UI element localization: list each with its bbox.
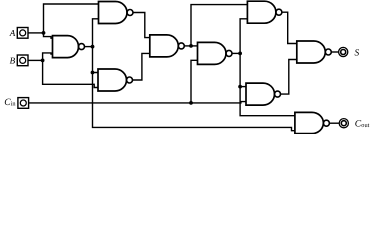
nand U1 inputs A,B: [53, 36, 79, 58]
nand U4 output s1: [150, 35, 179, 57]
wire B down to U3 lower input: [43, 60, 98, 87]
nand U6 inputs s1,n4: [247, 1, 276, 23]
svg-text:A: A: [9, 28, 16, 38]
wire n4 up to U6 lower input: [240, 19, 247, 54]
wire Cin right to U7 lower input: [191, 102, 246, 103]
wire s1 up to U6 upper input: [191, 5, 247, 46]
output terminal S: [339, 47, 348, 56]
node B junction: [41, 59, 45, 63]
wire B from box to junction: [28, 59, 42, 61]
node s1 junction: [189, 44, 193, 48]
wire B up into U1 lower input: [43, 53, 53, 61]
output terminal Cout: [339, 119, 348, 128]
node A junction: [42, 31, 46, 35]
nand U2 inputs A,n1: [99, 2, 128, 24]
node n4 tap at U7: [238, 85, 242, 89]
svg-text:B: B: [10, 56, 16, 66]
svg-text:in: in: [11, 101, 17, 108]
node n4 junction: [238, 52, 242, 56]
wire U6 output to U8 upper input: [282, 12, 297, 43]
nand U8 output S: [297, 41, 326, 63]
wire n1 down to bottom rail toward U9: [93, 73, 295, 131]
nand U7 inputs n4,Cin: [246, 83, 275, 105]
wire Cin from box to junction: [29, 102, 191, 104]
wire n1 down to U3 upper input: [93, 47, 99, 73]
wire U3 output to U4 lower input: [133, 53, 150, 80]
wire A from box to junction: [28, 32, 43, 34]
input terminal A: [17, 28, 28, 39]
wire A down into U1 upper input: [44, 33, 53, 38]
wire U4 output to node s1: [184, 45, 191, 47]
wire n4 tap to U7 upper input: [240, 86, 246, 88]
nand U9 output Cout: [295, 112, 324, 133]
svg-text:out: out: [361, 122, 369, 129]
svg-text:S: S: [355, 49, 360, 59]
wire U7 output to U8 lower input: [281, 60, 297, 95]
wire U1 output to node n1: [85, 46, 93, 48]
node n1 tap at U3: [91, 71, 95, 75]
node Cin junction: [189, 101, 193, 105]
wire n1 up to U2 lower input: [93, 19, 99, 47]
wire U8 output to S terminal: [331, 51, 338, 53]
wire A up to top rail into U2 upper input: [44, 4, 99, 33]
input terminal Cin: [18, 98, 29, 109]
wire U9 output to Cout terminal: [329, 122, 339, 124]
input terminal B: [17, 55, 28, 66]
nand U5 inputs s1,Cin: [198, 42, 227, 64]
wire Cin up to U5 lower input: [191, 60, 198, 103]
wire U2 output to U4 upper input: [133, 13, 150, 38]
wire n4 down to U7 upper input and U9 upper input: [240, 53, 295, 115]
node n1 junction: [91, 45, 95, 49]
wire U5 output to node n4: [232, 52, 240, 54]
wire s1 right into U5 upper input: [191, 45, 198, 47]
nand U3 inputs n1,B: [98, 69, 127, 91]
